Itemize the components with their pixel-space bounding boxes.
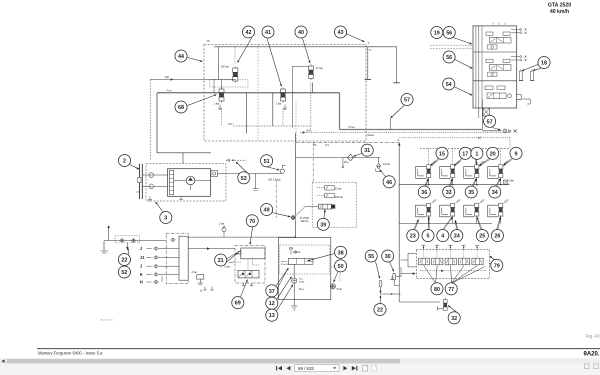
balloon 5 [422,230,434,242]
balloon 38 [335,246,347,258]
svg-text:70: 70 [249,219,255,225]
balloon 32 [448,312,460,324]
stack section2 work ports [511,56,527,61]
stack section3 outlet hook [522,99,530,104]
wire main return riser x295 [294,133,296,238]
svg-text:Rack: Rack [368,133,375,137]
wire pump internals [158,174,211,187]
leader 50 [333,271,338,282]
valve stack right step notch [517,95,522,100]
svg-text:40 µ: 40 µ [344,161,349,164]
box 70 drain marks [242,283,253,286]
leader 46 [380,170,386,177]
wire stack to dashed box links [430,45,473,48]
svg-text:57: 57 [404,97,410,103]
leader 5 [428,217,430,229]
wire manifold feed riser x399 [398,143,401,271]
leader 49 [270,212,291,217]
switch drain bracket [253,174,258,191]
wire coupler K to block [159,273,179,275]
leader 21b [227,251,241,259]
wire valve 40 pilot drop [310,83,312,133]
svg-text:filter: filter [510,180,515,183]
svg-text:A: A [398,138,400,142]
svg-text:Vb: Vb [207,39,211,43]
svg-text:39: 39 [320,222,326,228]
wire valve 40 drain stub [312,83,314,93]
wire H coupler drop [161,276,163,282]
check valve 46 (24 bar) [376,158,390,172]
leader 53 [236,162,248,174]
leader 34 [496,178,501,186]
balloon 30 [382,250,394,262]
svg-text:77: 77 [448,287,454,293]
inline coupler b [131,239,136,243]
balloon 25 [476,230,488,242]
svg-text:15: 15 [439,151,445,157]
leader 22 lower [379,296,381,304]
window corner icon 1 [585,364,590,369]
balloon 68 [175,101,187,113]
balloon 18 [538,56,550,68]
svg-text:68: 68 [178,105,184,111]
svg-text:Pres: Pres [167,88,173,92]
wire valve 41 drain down [282,109,284,127]
auxiliary pump below stack [479,108,490,118]
wire Pres supply line horizontal [157,92,340,94]
toolbar page number field [295,365,340,372]
wire connector to check valves [142,175,158,186]
wire Vpb line [150,78,235,81]
coupler valve unit row2-4 [488,199,509,217]
valve 41 drain mark [283,105,287,110]
leader 2 [130,165,140,170]
leader 40 [303,38,311,63]
svg-text:200 bar: 200 bar [335,196,343,199]
svg-text:1: 1 [475,151,478,157]
balloon 55 [365,250,377,262]
port I brackets [203,287,214,291]
wire manifold tee links [423,250,425,259]
leader 79b [489,262,492,265]
toolbar previous-page button [287,366,291,371]
leader 39 [324,210,326,218]
wire return riser with arrow [107,225,110,240]
wire row1 cartridge stubs to bus [428,178,430,185]
svg-text:54: 54 [446,82,452,88]
row1 bus junction dots [428,184,430,186]
tank symbol U-pipe [365,47,400,83]
balloon 50 [335,260,347,272]
wire cooler to fan [331,267,340,281]
balloon 69 [232,297,244,309]
svg-text:22: 22 [377,307,383,313]
horizontal scrollbar thumb [7,359,401,364]
balloon 41 [262,26,274,38]
balloon 3 [160,211,172,223]
wire Tr collector drop [218,47,220,80]
svg-text:30 µ: 30 µ [299,288,304,291]
svg-text:35: 35 [468,190,474,196]
leader 30 [390,262,394,272]
balloon 42 [242,26,254,38]
balloon 53 [238,172,250,184]
svg-text:56: 56 [446,55,452,61]
svg-text:20: 20 [490,151,496,157]
wire pump inlet drop [182,153,184,164]
wire coupler J1 to block [159,256,179,258]
wire valve 68 pilot up [221,80,223,90]
leader 22 [127,248,129,255]
svg-text:38: 38 [338,250,344,256]
balloon 57 [401,93,413,105]
svg-text:34: 34 [492,190,498,196]
balloon 2 [118,154,130,166]
svg-text:69: 69 [235,301,241,307]
coupler H [140,280,159,285]
balloon 17 [459,147,471,159]
selector block solid box [179,236,188,280]
svg-text:Ø 2: Ø 2 [229,123,234,126]
toolbar page-view icon 1 [363,365,368,371]
leader 23 [414,219,419,229]
solenoid valve 39 [319,204,335,209]
leader 54 [455,87,472,95]
stack section 2 spool valve [486,59,511,76]
svg-text:Fig. 43: Fig. 43 [586,334,600,339]
balloon 31 [361,144,373,156]
check valve circle b [149,184,154,189]
tank bracket bottom-left [101,241,109,253]
valve block 44 dashed enclosure [204,45,366,142]
filter 31 diamond [344,154,354,164]
leaders 80/77 to spools [424,266,436,284]
stack section 1 spool valve [486,32,511,49]
svg-text:23: 23 [410,234,416,240]
leader 57b [493,128,501,131]
leader 21a [227,253,239,262]
wire inner sub-box of block [292,66,308,127]
wire row2 risers [428,215,430,223]
svg-text:Xb: Xb [313,143,317,147]
balloon 37 [266,285,278,297]
leader 57a [391,106,405,119]
brake valve spool in 70 [238,270,259,278]
stack top port marks [493,23,505,25]
leader 19/56 [445,35,472,45]
wire Xb dash-dot line [296,142,399,144]
leader 43 [346,34,364,42]
wire pilot feed dash-dot into cluster [312,143,314,183]
wire pump outlet horizontal [157,152,211,154]
svg-text:31: 31 [364,148,370,154]
wire drop to 22/52 arrow [126,243,129,250]
relief valve 32 cartridge [438,298,448,311]
leader 38 [308,254,335,262]
svg-text:36: 36 [421,190,427,196]
manifold spool valve 4 [459,258,470,265]
orifice label right [303,130,312,134]
leader 31 [354,154,362,157]
leader 4 [443,217,453,230]
svg-text:69 / 632: 69 / 632 [298,366,314,371]
wire valve 68 drain down [221,109,223,127]
balloon 1 [471,147,483,159]
coupler J1 [140,255,159,260]
svg-text:Tr: Tr [369,48,372,52]
wire Vpb to Pres link [213,80,215,94]
leader 3 [156,202,164,213]
wire pump to switch line [217,173,282,175]
wire row1 cartridge pilot stubs [428,148,430,165]
balloon 19 [431,26,443,38]
balloon 46 [383,176,395,188]
svg-text:13: 13 [269,313,275,319]
pump drain feet [148,196,183,201]
wire block outlet to valve 70 [188,247,235,250]
leader 68 [188,94,217,105]
balloon 39 [317,218,329,230]
wire Pban riser x339 [339,93,341,130]
balloon 49 [261,203,273,215]
leaders 37/12/13 from balloons [278,269,289,289]
hose capsule 30 [393,273,399,285]
svg-text:Massey Ferguson 6400 - Issue 5: Massey Ferguson 6400 - Issue 5.a [38,350,103,355]
leader 44 [188,58,203,63]
svg-text:GTA 2520: GTA 2520 [548,3,571,9]
svg-text:22 bar: 22 bar [335,188,342,191]
wire internal dashed partition [257,45,259,142]
svg-text:57: 57 [487,119,493,125]
wire trailer supply line [104,239,166,241]
leader 15 [430,158,439,166]
svg-text:50: 50 [338,264,344,270]
wire coupler J to block [159,265,179,267]
svg-text:21: 21 [218,258,224,264]
svg-text:18: 18 [541,60,547,66]
toolbar next-page button [343,366,347,371]
svg-text:33: 33 [446,190,452,196]
svg-text:26: 26 [494,234,500,240]
svg-text:17: 17 [462,151,468,157]
leader 56 [455,60,472,69]
leader 79a [490,256,495,260]
manifold spool valve 5 [472,258,483,265]
leader 24 [455,220,458,229]
wire pilot line y157.5 [295,157,380,159]
wire Pres dashed return riser [149,80,151,161]
svg-text:9: 9 [515,151,518,157]
svg-text:4: 4 [441,234,444,240]
balloon 15 [436,147,448,159]
balloon 22 [118,253,130,265]
manifold spool valve 2 [432,258,443,265]
reducing valve 68 [219,88,224,103]
balloon 20 [487,147,499,159]
leader 20 [479,159,490,167]
balloon 57 [484,115,496,127]
svg-text:P1: P1 [326,143,330,147]
svg-text:5: 5 [427,234,430,240]
svg-text:49: 49 [264,207,270,213]
port circle on 70 [238,251,241,254]
balloon 13 [266,309,278,321]
leader 55 [376,262,381,279]
svg-text:44: 44 [178,54,184,60]
manifold pilot tees [422,245,426,249]
wire branch riser x246 [245,93,247,134]
wire tank return line Tr [214,46,368,48]
valve 68 drain mark [218,105,222,110]
leader 26 [497,217,501,229]
svg-text:25: 25 [479,234,485,240]
svg-text:56: 56 [446,30,452,36]
cooler ground symbol [291,306,297,310]
toolbar page-view icon 2 [372,365,377,371]
balloon 44 [175,50,187,62]
svg-text:30: 30 [385,254,391,260]
balloon 40 [295,26,307,38]
wire 39 to 49 link [295,207,318,217]
svg-text:2 bar: 2 bar [192,271,198,274]
balloon 52 [118,266,130,278]
balloon 4 [437,230,449,242]
wire branch x342 junction [342,158,344,168]
pilot valve 22 bar [317,185,342,190]
svg-text:80: 80 [434,287,440,293]
balloon 34 [489,186,501,198]
wire lower pilot dotted line [399,137,510,139]
wire Rack drop x510 [509,138,511,149]
window corner icon 2 [594,364,599,369]
manifold spool valve 1 [418,258,429,265]
svg-text:37: 37 [269,289,275,295]
leader 9 [503,158,512,165]
wire 5bar spring note [229,262,236,263]
svg-text:3: 3 [164,215,167,221]
leader 51 [264,166,280,171]
manifold spool valve 3 [445,258,456,265]
wire Rack dotted line [300,132,510,134]
svg-text:32: 32 [451,316,457,322]
svg-text:12: 12 [269,301,275,307]
port circle on cooler [294,251,296,253]
wire manifold left piping [390,254,416,280]
pilot valve 200 bar [317,193,344,199]
leader 35 [472,178,476,186]
spool manifold dashed box [416,250,489,279]
hose capsule 55 [379,280,382,294]
svg-text:40km/h: 40km/h [301,220,310,223]
leader 37 [276,268,289,287]
leader 36 [425,178,429,186]
pump suction connector plate [136,164,142,199]
horizontal scrollbar track [0,358,600,363]
svg-text:9A20.: 9A20. [584,351,600,357]
svg-text:40: 40 [298,30,304,36]
balloon 80 [431,283,443,295]
breather filter symbol [504,180,515,185]
leader 13 [276,285,293,313]
balloon 56 [443,51,455,63]
balloon 21 [215,254,227,266]
balloon 70 [246,215,258,227]
svg-text:J1: J1 [140,255,145,260]
sequence valve 41 [281,88,286,103]
leader 42 [238,38,252,63]
balloon 54 [443,78,455,90]
couplers 18 cartridge a [519,70,523,81]
pump filter hatched bar [169,170,173,195]
pilot cluster dashed box [312,182,357,227]
leader 69 [241,280,248,297]
wire coupler J to block [159,248,179,250]
wire 70 internal link [235,259,259,271]
balloon 23 [407,230,419,242]
leader 18b [533,69,541,71]
svg-text:19: 19 [434,30,440,36]
wire internal partition 2 [295,101,297,141]
thermostat circle 70/60 [292,278,305,284]
horizontal scrollbar left arrow [1,359,4,363]
wire lower return bus [380,270,440,302]
svg-text:5 bar: 5 bar [225,265,231,268]
balloon 35 [465,186,477,198]
svg-text:H: H [140,280,143,285]
leader 32 [448,306,457,313]
coupler valve unit row1-1 [416,161,437,179]
svg-text:K: K [140,272,143,277]
wire row2 left feed [398,185,400,224]
wire 39 down stub [324,209,326,214]
valve 42 pilot dashed box [210,80,248,87]
svg-text:24: 24 [454,234,460,240]
svg-text:41: 41 [265,30,271,36]
balloon 56 [443,26,455,38]
bypass valve 1.4 bar top [289,247,300,254]
leader 25 [476,217,481,229]
svg-text:22: 22 [121,257,127,263]
cooler core box [289,258,314,264]
coupler valve unit row2-1 [416,199,437,217]
coupler dashed box on supply [115,236,140,243]
svg-text:I: I [201,289,202,293]
stack section 3 spool valve [485,86,512,99]
svg-text:T: T [368,42,370,46]
toolbar first-page button [276,366,282,371]
wire valve 42 pilot dashes [234,47,236,65]
leader 33 [449,178,452,186]
couplers 18 cartridge b [530,70,534,81]
wire branch riser x273 [272,93,274,126]
balloon 43 [334,26,346,38]
leader 17 [454,158,463,166]
wire Pban line horizontal [340,129,483,131]
svg-text:MA-09-00452: MA-09-00452 [100,319,114,322]
coupler K [140,272,159,277]
wire orifice line [233,125,311,127]
balloon 77 [445,283,457,295]
coupler valve unit row1-3 [464,161,485,179]
balloon 12 [266,297,278,309]
balloon 9 [510,147,522,159]
svg-text:2 bar: 2 bar [219,222,225,225]
svg-text:Vpb: Vpb [165,75,170,79]
balloon 33 [443,186,455,198]
svg-text:79: 79 [494,263,500,269]
svg-text:27 bar: 27 bar [316,67,323,70]
gear pump circle [186,176,195,190]
